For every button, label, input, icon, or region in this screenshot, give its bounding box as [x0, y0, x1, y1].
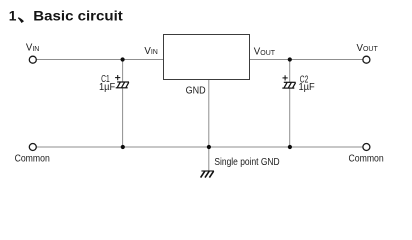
svg-text:1µF: 1µF [299, 82, 315, 93]
svg-text:Common: Common [15, 154, 50, 165]
svg-text:1µF: 1µF [99, 82, 115, 93]
svg-text:Basic circuit: Basic circuit [33, 9, 123, 24]
svg-text:GND: GND [186, 85, 206, 96]
svg-text:Common: Common [349, 154, 384, 165]
svg-text:Single point GND: Single point GND [214, 157, 279, 168]
svg-text:1: 1 [9, 9, 17, 24]
